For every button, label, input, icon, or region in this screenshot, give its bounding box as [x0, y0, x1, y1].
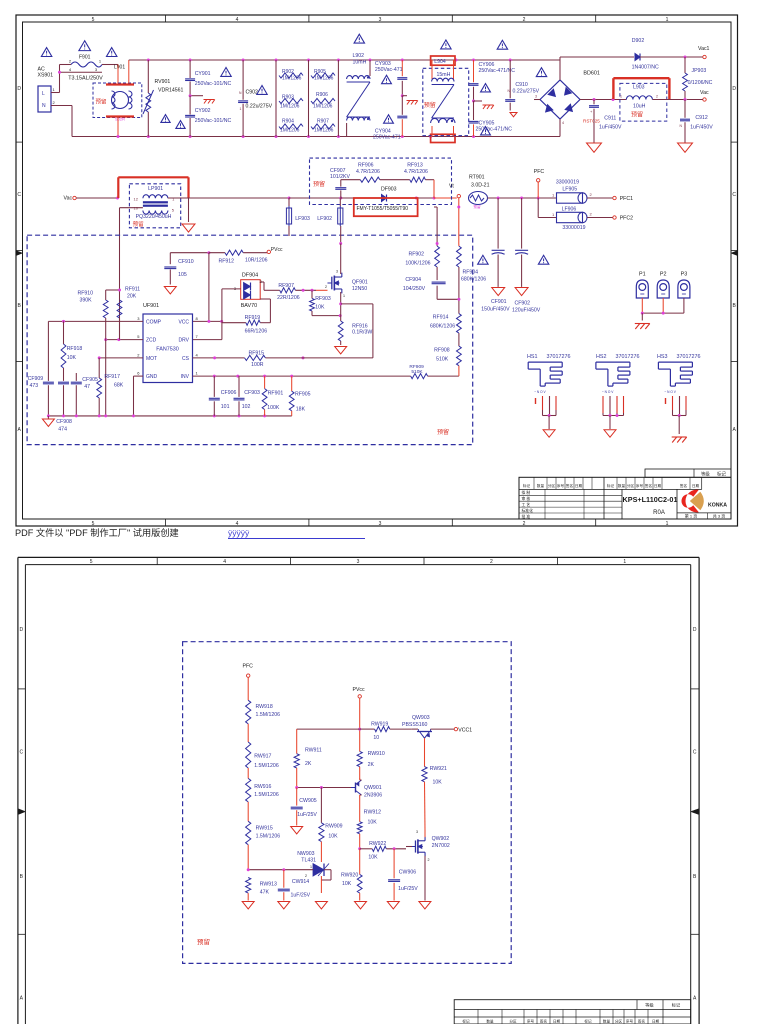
- svg-text:标记: 标记: [717, 470, 726, 477]
- svg-text:QW902: QW902: [432, 836, 450, 842]
- wire N to bottom bus: [51, 106, 72, 137]
- svg-text:R907: R907: [317, 119, 329, 125]
- svg-text:105: 105: [178, 272, 187, 278]
- svg-text:68K: 68K: [114, 383, 124, 389]
- ground QW902: [419, 902, 431, 909]
- svg-text:P2: P2: [660, 272, 667, 278]
- wire COMP: [48, 320, 143, 323]
- svg-text:4: 4: [236, 521, 239, 527]
- svg-text:1M/1206: 1M/1206: [280, 128, 300, 134]
- svg-text:CF908: CF908: [56, 419, 72, 425]
- resistor RF909: [409, 364, 459, 379]
- svg-text:1M/1206: 1M/1206: [314, 76, 334, 82]
- svg-text:序号: 序号: [636, 483, 644, 488]
- capacitor CY904: [373, 96, 407, 141]
- svg-text:PVcc: PVcc: [353, 687, 366, 693]
- svg-text:2K: 2K: [305, 761, 312, 767]
- heatsink HS3: [657, 354, 700, 434]
- svg-text:510K: 510K: [411, 369, 423, 375]
- reserved text page2: [197, 937, 210, 946]
- resistor R903: [279, 95, 303, 110]
- bottom bus control box: [47, 414, 292, 417]
- wire LP901 pin10 down: [120, 208, 143, 340]
- capacitor CW914: [278, 870, 311, 901]
- svg-text:CF909: CF909: [28, 376, 44, 382]
- svg-text:22R/1206: 22R/1206: [277, 295, 300, 301]
- svg-text:RW915: RW915: [256, 826, 273, 832]
- resistor RW915: [246, 802, 281, 870]
- svg-text:1: 1: [343, 294, 345, 298]
- svg-text:QW901: QW901: [364, 785, 382, 791]
- capacitor C912: [680, 100, 714, 144]
- svg-text:VDR14561: VDR14561: [158, 88, 183, 94]
- svg-text:CW905: CW905: [299, 798, 316, 804]
- earth ground HS3: [672, 437, 687, 443]
- svg-text:HS1: HS1: [527, 354, 538, 360]
- svg-text:CF901: CF901: [491, 299, 507, 305]
- warning triangle above bridge: [536, 68, 546, 77]
- svg-text:分区: 分区: [548, 483, 556, 488]
- transistor QW901: [351, 778, 382, 822]
- svg-text:S02R: S02R: [115, 116, 125, 121]
- mosfet QW902: [406, 830, 450, 901]
- svg-text:LF905: LF905: [562, 186, 577, 192]
- resistor RW919: [360, 721, 412, 740]
- svg-text:20K: 20K: [127, 294, 137, 300]
- svg-text:日期: 日期: [652, 1018, 660, 1023]
- svg-text:RF911: RF911: [125, 287, 140, 293]
- svg-text:R905: R905: [314, 69, 326, 75]
- warning triangle near C902: [257, 85, 267, 94]
- ground RW913: [242, 902, 254, 909]
- wire CF910 to PVcc: [170, 251, 225, 254]
- capacitor CF904: [403, 267, 459, 299]
- capacitor CF905: [71, 373, 98, 416]
- wire QF901 source node: [339, 292, 373, 358]
- capacitor CY905: [469, 101, 513, 137]
- resistor RF906: [341, 163, 380, 183]
- title strip table page2: [454, 1000, 691, 1024]
- svg-text:PVcc: PVcc: [271, 247, 283, 253]
- svg-text:HS2: HS2: [596, 354, 607, 360]
- svg-text:RW910: RW910: [368, 751, 385, 757]
- wire PVcc row to RW911: [297, 729, 360, 754]
- svg-text:DF903: DF903: [381, 187, 397, 193]
- svg-text:日期: 日期: [575, 483, 583, 488]
- resistor RF915: [245, 351, 373, 369]
- svg-text:L901: L901: [114, 65, 125, 71]
- mosfet QF901: [316, 270, 368, 299]
- svg-text:标记: 标记: [523, 483, 531, 488]
- svg-text:标记: 标记: [672, 1002, 681, 1009]
- svg-text:标记: 标记: [462, 1018, 470, 1023]
- resistor RW916: [246, 768, 279, 802]
- resistor RF913: [380, 163, 434, 199]
- drawing number KPS+L110C2-01: [623, 495, 678, 516]
- svg-text:4: 4: [236, 17, 239, 23]
- svg-text:473: 473: [30, 383, 39, 389]
- svg-text:Vac1: Vac1: [698, 46, 710, 52]
- wire LF902 to QF901 drain: [339, 226, 342, 274]
- wire CS: [193, 356, 305, 359]
- resistor RF903: [310, 290, 342, 317]
- fuse F901: [68, 55, 103, 82]
- svg-text:签名: 签名: [680, 483, 688, 488]
- svg-text:1: 1: [240, 107, 242, 111]
- reserved text LP901: [133, 220, 145, 228]
- svg-text:RF909: RF909: [409, 364, 424, 370]
- svg-text:R906: R906: [316, 92, 328, 98]
- svg-text:150uF/450V: 150uF/450V: [481, 307, 510, 313]
- ground C911: [587, 143, 602, 152]
- warning triangle near CF902: [538, 255, 548, 264]
- svg-text:CF905: CF905: [82, 377, 98, 383]
- svg-text:1: 1: [666, 521, 669, 527]
- fuse LF902: [317, 198, 343, 226]
- svg-text:PFC: PFC: [534, 169, 545, 175]
- resistor RF904: [457, 244, 487, 314]
- svg-text:标记: 标记: [584, 1018, 592, 1023]
- terminal PFC: [534, 169, 545, 198]
- capacitor C910: [505, 60, 539, 111]
- svg-text:250Vac-471: 250Vac-471: [373, 134, 401, 140]
- wire DF904 pin2 to RF907: [260, 282, 280, 290]
- svg-text:1uF/25V: 1uF/25V: [291, 893, 311, 899]
- svg-text:3: 3: [535, 95, 537, 99]
- svg-text:1uF/25V: 1uF/25V: [398, 886, 418, 892]
- svg-text:4: 4: [223, 559, 226, 565]
- diode DF903: [381, 187, 397, 202]
- earth ground P connectors: [635, 324, 650, 330]
- svg-text:RF901: RF901: [268, 391, 284, 397]
- warning triangle (L901): [106, 48, 116, 57]
- resistor RF910: [78, 289, 122, 416]
- warning triangle mid CY905: [481, 127, 491, 135]
- Y-cap ground CY906/905: [472, 100, 494, 110]
- svg-text:XS901: XS901: [38, 73, 54, 79]
- svg-text:CF902: CF902: [515, 301, 531, 307]
- svg-text:VCC: VCC: [178, 319, 189, 325]
- svg-text:FMY-T1055/T5055/T90: FMY-T1055/T5055/T90: [357, 206, 409, 212]
- AC connector XS901: [38, 67, 56, 113]
- resistor RW912: [357, 810, 381, 849]
- resistor RF911: [117, 287, 140, 340]
- svg-text:R0A: R0A: [653, 510, 665, 516]
- svg-text:RF918: RF918: [67, 346, 83, 352]
- svg-text:33000019: 33000019: [556, 180, 579, 186]
- svg-text:66R/1206: 66R/1206: [245, 329, 268, 335]
- capacitor CF906: [209, 376, 237, 416]
- capacitor CY906: [469, 60, 516, 101]
- svg-text:2N7002: 2N7002: [432, 843, 450, 849]
- svg-text:250Vac-101/NC: 250Vac-101/NC: [195, 81, 232, 87]
- svg-text:第 1 页: 第 1 页: [685, 512, 697, 518]
- capacitor CF909: [28, 321, 54, 416]
- svg-text:1M/1206: 1M/1206: [282, 76, 302, 82]
- svg-text:预留: 预留: [313, 180, 325, 188]
- terminal PFC page2: [243, 664, 254, 678]
- svg-text:RF903: RF903: [315, 296, 331, 302]
- svg-text:数量: 数量: [603, 1018, 611, 1023]
- svg-text:0.1R/3W: 0.1R/3W: [352, 330, 372, 336]
- svg-text:CW906: CW906: [399, 870, 416, 876]
- resistor RF908: [434, 346, 461, 376]
- terminal PVcc: [267, 247, 283, 254]
- svg-text:5: 5: [92, 521, 95, 527]
- svg-text:1.5M/1206: 1.5M/1206: [256, 834, 281, 840]
- svg-text:数量: 数量: [537, 483, 545, 488]
- fuse LF903: [286, 198, 310, 236]
- warning triangle above L904: [441, 40, 451, 49]
- svg-text:37017276: 37017276: [677, 354, 701, 360]
- capacitor CY903: [375, 60, 407, 96]
- resistor R902: [276, 60, 303, 137]
- svg-text:RF919: RF919: [245, 315, 261, 321]
- reserved text control box: [437, 428, 449, 436]
- resistor RF916: [338, 321, 372, 345]
- svg-text:PBSS5160: PBSS5160: [402, 722, 427, 728]
- svg-text:INV: INV: [181, 374, 190, 380]
- svg-text:1uF/450V: 1uF/450V: [599, 125, 622, 131]
- svg-text:RF917: RF917: [104, 374, 120, 380]
- connector P3: [678, 272, 690, 314]
- svg-text:预留: 预留: [96, 98, 108, 106]
- svg-text:QF901: QF901: [352, 280, 368, 286]
- common-mode choke L901 (reserved): [93, 60, 142, 137]
- resistor RF912: [219, 250, 268, 264]
- svg-text:C: C: [17, 192, 21, 198]
- capacitor CF910: [164, 253, 193, 285]
- resistor RW921: [422, 766, 447, 831]
- svg-text:2: 2: [325, 285, 327, 289]
- ground CF910: [164, 287, 176, 294]
- svg-text:RW921: RW921: [430, 766, 447, 772]
- dual diode DF904: [234, 273, 263, 310]
- svg-text:Vac: Vac: [700, 90, 709, 96]
- capacitor CF903: [234, 376, 260, 416]
- svg-text:P1: P1: [639, 272, 646, 278]
- svg-text:C912: C912: [695, 115, 708, 121]
- svg-text:47K: 47K: [260, 890, 270, 896]
- svg-text:100K: 100K: [267, 405, 280, 411]
- svg-text:分区: 分区: [509, 1018, 517, 1023]
- svg-text:3: 3: [379, 521, 382, 527]
- svg-text:120uF/450V: 120uF/450V: [512, 308, 541, 314]
- svg-text:Vt: Vt: [449, 184, 454, 190]
- wire DRV: [193, 289, 241, 340]
- terminal Vac input row2: [64, 196, 77, 202]
- svg-text:LF903: LF903: [295, 216, 310, 222]
- svg-text:10K: 10K: [368, 820, 378, 826]
- svg-text:10uH: 10uH: [633, 104, 646, 110]
- ground CF908: [42, 416, 72, 433]
- resistor RW911: [294, 748, 322, 788]
- svg-text:2: 2: [656, 95, 658, 99]
- svg-text:COMP: COMP: [146, 319, 162, 325]
- svg-text:KPS+L110C2-01: KPS+L110C2-01: [623, 495, 678, 504]
- resistor RF905: [289, 376, 310, 416]
- svg-text:RW916: RW916: [254, 784, 271, 790]
- svg-text:CY901: CY901: [195, 71, 211, 77]
- svg-text:5: 5: [90, 559, 93, 565]
- inductor LF906: [552, 207, 593, 231]
- ground CW905: [291, 827, 303, 834]
- svg-text:GND: GND: [146, 374, 158, 380]
- svg-text:标准化: 标准化: [522, 508, 534, 513]
- svg-text:10K: 10K: [342, 881, 352, 887]
- svg-text:37017276: 37017276: [547, 354, 571, 360]
- svg-text:4: 4: [562, 121, 564, 125]
- svg-text:1M/1206: 1M/1206: [314, 128, 334, 134]
- svg-text:1: 1: [620, 95, 622, 99]
- svg-text:10K: 10K: [67, 355, 77, 361]
- inductor LF905: [552, 180, 593, 204]
- resistor RF907: [277, 283, 316, 301]
- svg-text:L903: L903: [633, 85, 645, 91]
- svg-text:PFC1: PFC1: [620, 196, 633, 202]
- svg-text:250Vac-471/NC: 250Vac-471/NC: [476, 127, 513, 133]
- svg-text:RF910: RF910: [78, 291, 94, 297]
- svg-text:1: 1: [666, 17, 669, 23]
- svg-text:10K: 10K: [328, 834, 338, 840]
- svg-text:序号: 序号: [527, 1018, 535, 1023]
- svg-text:37017276: 37017276: [616, 354, 640, 360]
- resistor RW920: [341, 849, 362, 901]
- transistor QW903: [402, 715, 454, 767]
- svg-text:D: D: [693, 627, 697, 633]
- wire LP901 pin1 to RT901: [168, 197, 457, 200]
- svg-text:~ N O V: ~ N O V: [602, 390, 614, 394]
- svg-text:101: 101: [221, 404, 230, 410]
- svg-text:10R/1206: 10R/1206: [245, 258, 268, 264]
- shunt reference NW903 TL431: [297, 851, 329, 878]
- resistor RF901: [262, 376, 283, 416]
- svg-text:QW903: QW903: [412, 715, 430, 721]
- wire RW922 row: [358, 847, 372, 850]
- svg-text:L: L: [42, 91, 45, 97]
- wire Vac to LP901: [76, 197, 119, 200]
- svg-text:510K: 510K: [436, 357, 449, 363]
- warning triangle above L902: [354, 34, 364, 43]
- ground LP901: [182, 198, 195, 232]
- resistor RF902: [405, 246, 439, 267]
- svg-text:签名: 签名: [566, 483, 574, 488]
- svg-text:1.5M/1206: 1.5M/1206: [254, 792, 279, 798]
- svg-text:DRV: DRV: [179, 338, 190, 344]
- heatsink HS2: [596, 354, 640, 437]
- PDF trial watermark text: [15, 527, 365, 539]
- capacitor CF902: [512, 198, 541, 314]
- resistor RW917: [246, 724, 279, 769]
- terminal Vac: [687, 90, 709, 101]
- wire L to fuse: [51, 65, 102, 93]
- resistor RW910: [357, 751, 385, 779]
- resistor R905: [309, 60, 336, 137]
- svg-text:2: 2: [490, 559, 493, 565]
- svg-text:10K: 10K: [368, 855, 378, 861]
- wire L903 to Vac: [652, 98, 686, 101]
- IC UF901 FAN7530: [137, 303, 198, 382]
- capacitor C902: [238, 60, 272, 137]
- resistor R904: [279, 119, 303, 134]
- resistor RW913: [246, 878, 277, 901]
- svg-text:日期: 日期: [654, 483, 662, 488]
- svg-text:日期: 日期: [553, 1018, 561, 1023]
- svg-text:1.5M/1206: 1.5M/1206: [254, 763, 279, 769]
- reserved text CF907 box: [313, 180, 325, 188]
- resistor R906: [311, 92, 335, 110]
- svg-text:RW912: RW912: [364, 810, 381, 816]
- svg-text:RF914: RF914: [433, 315, 449, 321]
- svg-text:C: C: [693, 750, 697, 756]
- wire INV: [193, 375, 411, 378]
- svg-text:4.7R/1206: 4.7R/1206: [356, 169, 380, 175]
- svg-text:分区: 分区: [615, 1018, 623, 1023]
- svg-text:RW920: RW920: [341, 873, 358, 879]
- svg-text:3.0D-21: 3.0D-21: [471, 183, 490, 189]
- wire QW901 base row: [295, 786, 351, 789]
- page2 dashed box (reserved): [183, 642, 512, 964]
- ground C912: [678, 143, 693, 152]
- svg-text:10K: 10K: [315, 305, 325, 311]
- svg-text:3: 3: [336, 270, 338, 274]
- warning triangle right of L902 a: [382, 75, 392, 83]
- terminal PFC2: [587, 216, 633, 222]
- svg-text:CY902: CY902: [195, 108, 211, 114]
- svg-text:100R: 100R: [251, 362, 264, 368]
- svg-text:104/250V: 104/250V: [403, 286, 426, 292]
- svg-text:474: 474: [58, 427, 67, 433]
- svg-text:拟 制: 拟 制: [522, 490, 531, 495]
- svg-text:2: 2: [305, 874, 307, 878]
- svg-text:~ N O V: ~ N O V: [664, 390, 676, 394]
- resistor RF914: [430, 314, 461, 347]
- capacitor CW905: [291, 788, 318, 826]
- thermistor RT901: [449, 175, 490, 210]
- svg-text:~ N O V: ~ N O V: [534, 390, 546, 394]
- heatsink HS1: [527, 354, 570, 437]
- svg-text:DF904: DF904: [242, 273, 258, 279]
- resistor RW918: [246, 677, 281, 724]
- svg-text:RF907: RF907: [278, 283, 294, 289]
- svg-text:HS3: HS3: [657, 354, 668, 360]
- svg-text:10mH: 10mH: [353, 60, 367, 66]
- svg-text:T3.15AL/250V: T3.15AL/250V: [68, 76, 103, 82]
- svg-text:PFC2: PFC2: [620, 216, 633, 222]
- terminal PFC1: [587, 196, 633, 202]
- svg-text:数量: 数量: [618, 483, 626, 488]
- svg-text:RST025: RST025: [583, 119, 600, 124]
- svg-text:3: 3: [357, 559, 360, 565]
- svg-text:CS: CS: [182, 356, 190, 362]
- svg-text:RV901: RV901: [155, 79, 171, 85]
- ground RW920: [355, 902, 367, 909]
- capacitor CY902: [185, 96, 231, 137]
- warning triangle right of L902 b: [384, 115, 394, 123]
- svg-text:RW911: RW911: [305, 748, 322, 754]
- svg-text:0.22u/275V: 0.22u/275V: [246, 104, 273, 110]
- warning triangle mid CY906: [481, 84, 491, 92]
- svg-text:CF903: CF903: [244, 390, 260, 396]
- svg-text:2: 2: [523, 521, 526, 527]
- svg-text:RW922: RW922: [369, 841, 386, 847]
- PFC controller dashed box: [27, 235, 473, 444]
- svg-text:12N50: 12N50: [352, 286, 367, 292]
- ground CW906: [387, 902, 399, 909]
- svg-text:预留: 预留: [197, 937, 210, 946]
- terminal VCC1: [454, 727, 472, 733]
- svg-text:15mH: 15mH: [437, 72, 451, 78]
